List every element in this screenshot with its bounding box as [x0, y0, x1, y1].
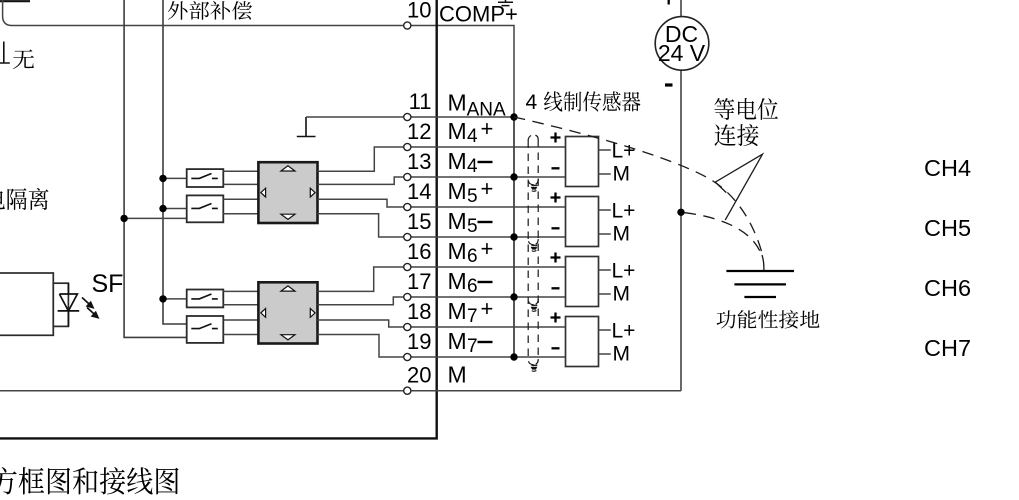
wire S1 upper output to mux	[223, 170, 258, 172]
svg-text:7: 7	[467, 306, 478, 327]
wire mux output to terminal 15 and sensor	[318, 214, 566, 237]
svg-text:CH6: CH6	[924, 275, 971, 301]
sensor 4 minus mark	[552, 347, 560, 349]
heading 方框图和接线图 (cut)	[0, 467, 179, 494]
svg-text:24 V: 24 V	[658, 40, 706, 66]
sensor 4 M stub	[599, 353, 611, 355]
svg-text:L+: L+	[612, 260, 636, 283]
DC 24V source circle	[655, 17, 709, 71]
label 连接	[715, 124, 759, 146]
sensor 1 L+ stub	[599, 149, 611, 151]
4-wire sensor 3 box	[566, 257, 599, 307]
svg-text:7: 7	[467, 336, 478, 357]
sensor 3 minus mark	[552, 287, 560, 289]
terminal 11 pin circle	[404, 113, 411, 120]
LED arrow 2	[87, 308, 96, 316]
status box (cut at left)	[0, 273, 53, 335]
sensor 1 M stub	[599, 173, 611, 175]
4-wire sensor 1 box	[566, 137, 599, 187]
svg-text:12: 12	[407, 119, 431, 144]
wire bus B to switch S1	[163, 177, 187, 179]
label 线制传感器 (wire transducer)	[544, 91, 641, 111]
svg-text:+: +	[481, 236, 494, 261]
svg-text:CH5: CH5	[924, 215, 971, 241]
wire S2 upper output to mux	[223, 198, 258, 200]
junction DC line / equipotential	[677, 209, 684, 216]
svg-text:SF: SF	[92, 270, 124, 298]
sensor 2 plus mark	[551, 193, 561, 203]
multiplexer U2	[258, 282, 317, 343]
switch S3	[187, 290, 224, 308]
sensor 1 minus mark	[552, 167, 560, 169]
terminal 18 pin circle	[404, 323, 411, 330]
label 等电位	[715, 98, 779, 120]
cable shield dashed outline	[528, 140, 538, 362]
junction M bus row 11	[510, 113, 517, 120]
wire S1 lower output to mux	[223, 183, 258, 185]
svg-text:6: 6	[467, 246, 478, 267]
cable shield top cap	[528, 135, 538, 141]
svg-text:CH4: CH4	[924, 155, 971, 181]
svg-text:+: +	[481, 176, 494, 201]
multiplexer U1	[258, 162, 317, 223]
wire mux output to terminal 18 and sensor	[318, 320, 566, 327]
svg-text:M: M	[448, 90, 467, 116]
sensor 4 L+ stub	[599, 329, 611, 331]
sensor 4 plus mark	[551, 313, 561, 323]
tick into earth symbol	[762, 255, 764, 271]
LED holder box	[53, 283, 68, 326]
wire bus A to switch S2 lower input	[124, 217, 187, 219]
plus mark DC	[668, 0, 670, 5]
switch S2	[187, 195, 224, 222]
wire S2 lower output to mux	[223, 213, 258, 215]
bus line B (inner vertical)	[163, 0, 187, 324]
terminal 10 pin circle	[404, 22, 411, 29]
svg-text:M: M	[448, 208, 467, 234]
wire M terminal 20 bus	[0, 390, 681, 392]
switch S4	[187, 316, 224, 343]
junction bus B / S2	[159, 205, 166, 212]
sensor 2 L+ stub	[599, 209, 611, 211]
sensor 2 minus mark	[552, 227, 560, 229]
svg-text:M: M	[448, 238, 467, 264]
label 无 (none)	[13, 50, 34, 69]
svg-text:M: M	[448, 178, 467, 204]
shield clamp below terminal 15	[529, 239, 539, 245]
wire S4 lower output to mux	[223, 334, 258, 336]
module boundary (right edge and bottom)	[0, 0, 437, 438]
4-wire sensor 2 box	[566, 197, 599, 247]
svg-text:13: 13	[407, 149, 431, 174]
wire S4 upper output to mux	[223, 319, 258, 321]
svg-text:M: M	[448, 118, 467, 144]
svg-text:M: M	[448, 362, 467, 388]
label 功能性接地	[717, 310, 820, 328]
pointer arrow 等电位连接	[715, 154, 762, 220]
svg-text:18: 18	[407, 299, 431, 324]
terminal 19 pin circle	[404, 353, 411, 360]
sensor 3 L+ stub	[599, 269, 611, 271]
DC supply line (vertical)	[680, 0, 682, 391]
label 电隔离 (electrical isolation, cut)	[0, 188, 48, 210]
svg-text:5: 5	[467, 186, 478, 207]
junction M bus row 13	[510, 173, 517, 180]
junction on bus A	[120, 215, 127, 222]
shield clamp below terminal 19	[529, 359, 539, 365]
svg-text:M: M	[448, 268, 467, 294]
equipotential bond dashed curve from M_ANA	[514, 117, 763, 255]
bus line A (left vertical)	[124, 0, 187, 337]
svg-text:+: +	[481, 116, 494, 141]
svg-text:CH7: CH7	[924, 335, 971, 361]
wire bus B to switch S2 upper input	[163, 208, 187, 210]
junction M bus row 15	[510, 233, 517, 240]
LED diode SF	[58, 283, 80, 326]
internal analog ground symbol	[297, 117, 316, 137]
wire mux output to terminal 14 and sensor	[318, 199, 566, 207]
terminal 13 pin circle	[404, 173, 411, 180]
svg-text:M: M	[448, 298, 467, 324]
sensor 2 M stub	[599, 233, 611, 235]
wire COMP+ loop: from top-left down, across row 10, right, down to M_ANA node	[3, 0, 514, 117]
wire M_ANA terminal 11	[306, 116, 514, 118]
svg-text:4: 4	[526, 91, 538, 114]
terminal 17 pin circle	[404, 293, 411, 300]
functional earth symbol	[726, 271, 794, 297]
svg-text:L+: L+	[612, 320, 636, 343]
terminal 20 pin circle	[404, 387, 411, 394]
minus mark DC	[665, 83, 673, 86]
svg-text:4: 4	[467, 156, 478, 177]
wire S3 lower output to mux	[223, 304, 258, 306]
LED arrow 1	[82, 298, 91, 306]
svg-text:M: M	[613, 343, 631, 366]
svg-text:L+: L+	[612, 200, 636, 223]
wire top-left cut-off box edge	[0, 0, 30, 2]
svg-text:M: M	[613, 223, 631, 246]
terminal 14 pin circle	[404, 203, 411, 210]
equipotential bond dashed curve from DC minus	[681, 212, 762, 255]
terminal 15 pin circle	[404, 233, 411, 240]
junction bus B / S1	[159, 175, 166, 182]
svg-text:14: 14	[407, 179, 431, 204]
M-analog bus (vertical)	[513, 117, 515, 357]
svg-text:6: 6	[467, 276, 478, 297]
svg-text:+: +	[481, 296, 494, 321]
switch S1	[187, 169, 224, 187]
4-wire sensor 4 box	[566, 317, 599, 367]
sensor 3 M stub	[599, 293, 611, 295]
svg-text:M: M	[613, 163, 631, 186]
label 外部补偿 (external compensation)	[168, 1, 252, 20]
svg-text:16: 16	[407, 239, 431, 264]
terminal 12 pin circle	[404, 143, 411, 150]
junction bus B / S3	[159, 295, 166, 302]
junction M bus row 19	[510, 353, 517, 360]
wire mux output to terminal 16 and sensor	[318, 267, 566, 291]
ground mark above COMP+	[498, 0, 513, 6]
svg-text:19: 19	[407, 329, 431, 354]
capacitor/ground symbol (cut at left edge)	[0, 42, 10, 64]
sensor 1 plus mark	[551, 133, 561, 143]
svg-text:M: M	[448, 148, 467, 174]
svg-text:M: M	[613, 283, 631, 306]
wire bus B to switch S3	[163, 298, 187, 300]
wire mux output to terminal 17 and sensor	[318, 297, 566, 305]
svg-text:M: M	[448, 328, 467, 354]
terminal 16 pin circle	[404, 263, 411, 270]
shield clamp below terminal 13	[529, 179, 539, 185]
shield clamp below terminal 17	[529, 299, 539, 305]
wire mux output to terminal 13 and sensor	[318, 177, 566, 184]
svg-text:4: 4	[467, 126, 478, 147]
svg-text:17: 17	[407, 269, 431, 294]
wire mux output to terminal 12 and sensor	[318, 147, 566, 171]
junction M bus row 17	[510, 293, 517, 300]
svg-text:5: 5	[467, 216, 478, 237]
sensor 3 plus mark	[551, 253, 561, 263]
svg-text:15: 15	[407, 209, 431, 234]
wire S3 upper output to mux	[223, 290, 258, 292]
wire mux output to terminal 19 and sensor	[318, 335, 566, 358]
svg-text:10: 10	[407, 0, 431, 23]
svg-text:20: 20	[407, 363, 431, 388]
svg-text:11: 11	[409, 89, 432, 114]
